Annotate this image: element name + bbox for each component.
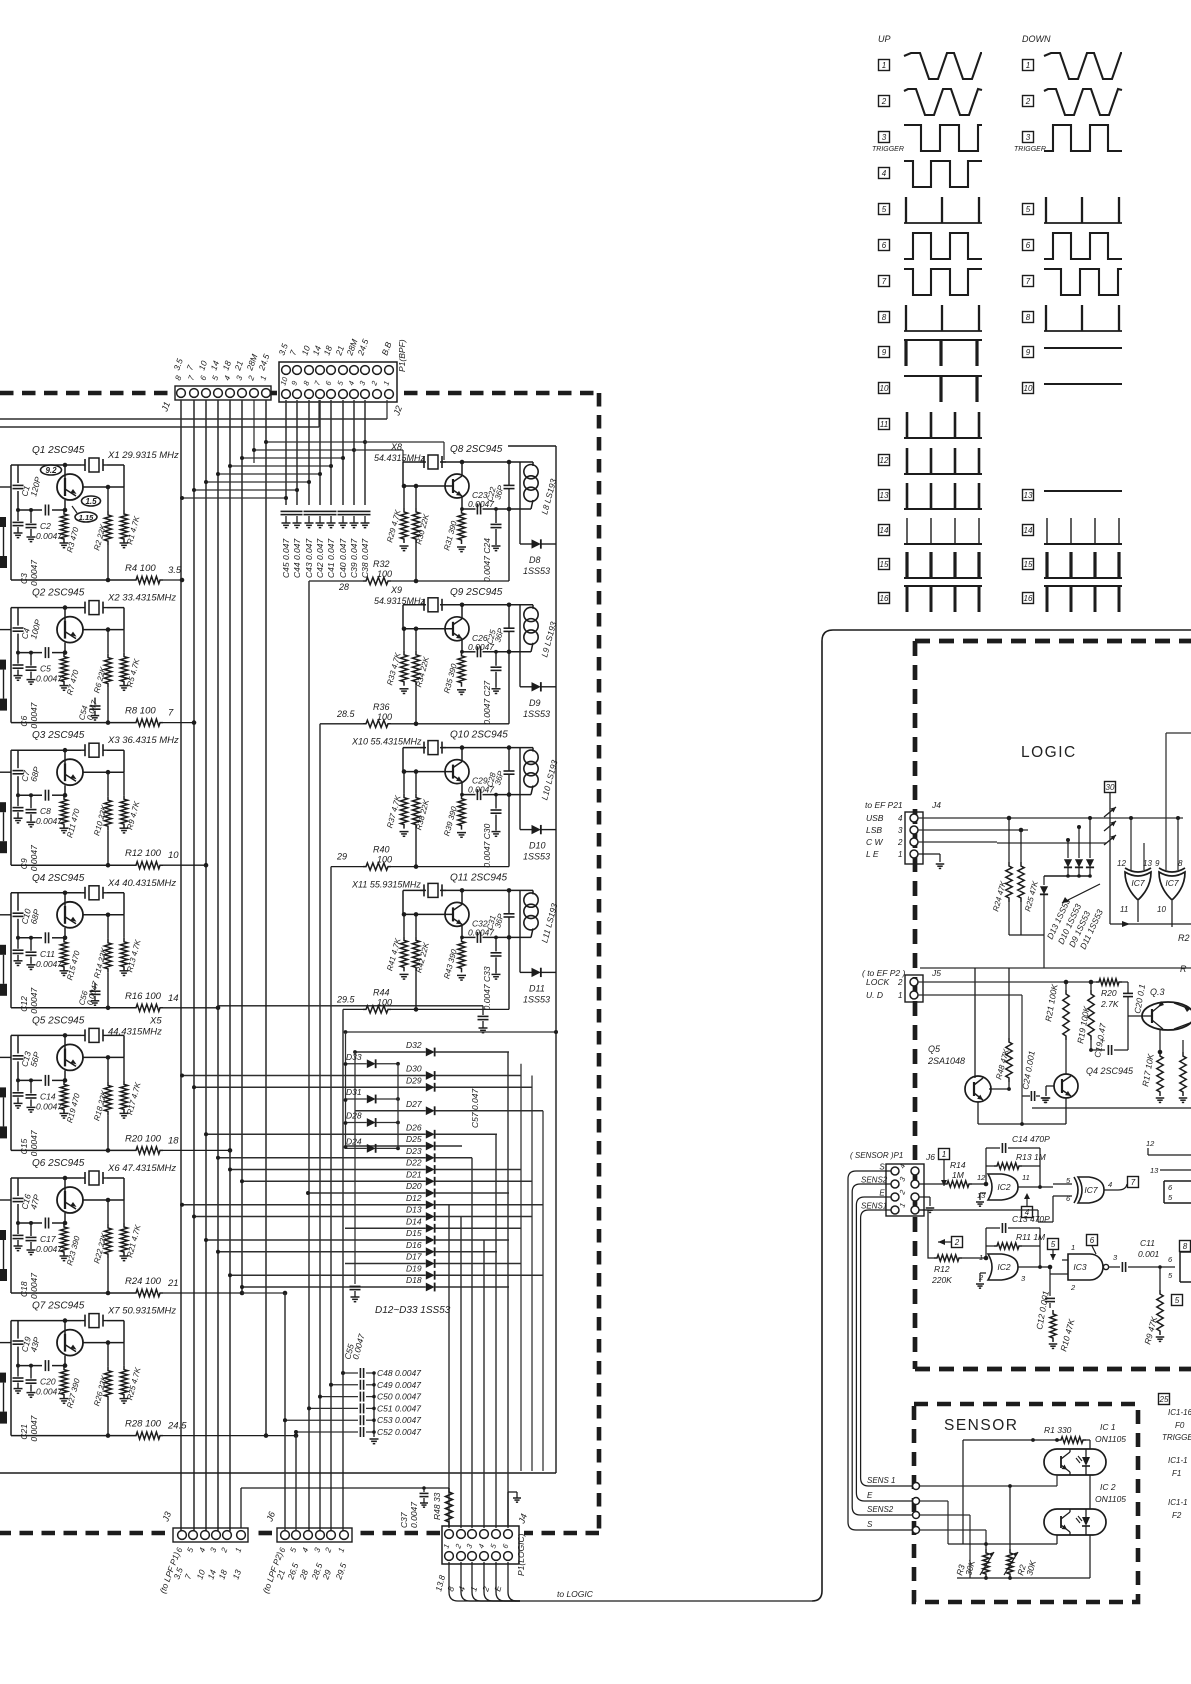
resistor R11 1M [986,1245,994,1247]
svg-text:J4: J4 [931,800,941,810]
waveform row 14 UP index box [879,525,890,536]
wire diode cathode [435,1086,532,1088]
svg-text:X3 36.4315 MHz: X3 36.4315 MHz [107,735,179,746]
svg-text:L E: L E [866,849,879,859]
crystal X (Q11) [428,883,438,897]
svg-text:5: 5 [1175,1296,1180,1305]
ground [27,1106,36,1108]
svg-text:X8: X8 [390,442,402,452]
diode D13 [426,1212,435,1221]
capacitor C3 0.0047 (left column lower) [17,510,19,521]
resistor R38 22K [415,772,417,794]
svg-text:0.0047: 0.0047 [29,845,39,871]
resistor R21 100K [1065,982,1067,990]
RF unit dashed enclosure bottom edge [524,1531,599,1536]
connector J2 / P1(BPF) outline [279,362,397,402]
svg-text:C15: C15 [19,1139,29,1155]
resistor R8 100 [133,719,163,726]
wire oscillator outer left rail [10,608,12,723]
resistor R42 22K [415,914,417,936]
connector J4 pin 2 circle (top row) [457,1530,466,1539]
wire oscillator bottom rail [11,722,133,724]
wire diode anode [355,1051,426,1053]
svg-text:25: 25 [1159,1395,1169,1404]
capacitor C31 36P [508,890,510,914]
svg-text:C48 0.0047: C48 0.0047 [377,1368,421,1378]
wire to diode [519,462,521,544]
resistor R10 47K [1050,1310,1056,1342]
svg-text:R1 330: R1 330 [1044,1425,1072,1435]
wire emitter down [461,782,463,795]
waveform row 16 UP trace [904,585,982,587]
svg-text:1: 1 [942,1150,946,1159]
svg-text:LOGIC: LOGIC [1021,744,1077,761]
connector J5 pin 1 circle [910,991,918,999]
connector J2 pin 5 circle (row P1) [339,366,348,375]
capacitor C48 [343,1372,358,1374]
svg-text:SENS2: SENS2 [861,1176,888,1185]
connector J1 pin 5 circle [214,389,223,398]
connector J6 pin 6 circle [281,1531,290,1540]
wire emitter out [65,1197,81,1200]
resistor R24 47K [1008,818,1010,862]
net number 30 [1105,782,1116,793]
svg-text:0.0047: 0.0047 [29,560,39,586]
wire oscillator top rail [403,747,426,749]
waveform row 2 DOWN index box [1023,96,1034,107]
gate IC3 (NAND) [1068,1254,1103,1280]
wire Q4 collector/emitter legs [1065,1098,1067,1124]
wire oscillator outer left rail [10,1321,12,1436]
wire diode anode [309,1192,426,1194]
wire bus 24.5 band [265,400,267,1436]
waveform row 7 DOWN index box [1023,276,1034,287]
wire diode cathode [376,1122,398,1124]
connector J3 pin 5 circle [189,1531,198,1540]
diode D17 [426,1259,435,1268]
wire oscillator outer left rail [10,1035,12,1150]
wire IC7b inputs [1165,733,1167,870]
svg-text:C14 470P: C14 470P [1012,1134,1050,1144]
crystal X (Q10) [428,741,438,755]
wire oscillator bottom rail [11,1007,133,1009]
svg-text:C11: C11 [1140,1238,1155,1248]
ground [60,827,69,829]
trimmer (cut at page edge) [0,1230,6,1240]
ground [27,964,36,966]
svg-text:DOWN: DOWN [1022,34,1051,44]
wire sensor top rail [962,1440,964,1544]
crossover arrow [1104,807,1116,817]
wire outer loop (to LOGIC feed) [812,630,1191,1601]
diode (cluster) 1SS53 [1089,855,1091,858]
connector J1 pin 8 circle [177,389,186,398]
wire LOCK line [918,981,1096,983]
capacitor C55 0.0047 [353,1050,357,1054]
wire IC7c inputs [1053,1186,1076,1188]
wire crossover matrix J1-J2 [266,441,365,443]
diode D9 1SS53 [520,686,532,688]
wire diode cluster bus [1044,875,1090,877]
gate IC7c (XOR) [1078,1177,1104,1203]
ground [120,1112,129,1114]
capacitor C5 (series base) [44,647,46,658]
connector J4 pin 5 circle (bottom row) [492,1552,501,1561]
capacitor C33 0.0047 (shunt) [495,937,497,951]
svg-text:C50 0.0047: C50 0.0047 [377,1392,421,1402]
diode D23 [426,1153,435,1162]
resistor R20 100 [133,1147,163,1154]
svg-text:10: 10 [1024,384,1033,393]
wire base lead [64,643,66,653]
svg-text:D8: D8 [529,555,541,565]
svg-text:21: 21 [167,1278,179,1289]
svg-text:IC3: IC3 [1073,1262,1087,1272]
svg-text:D24: D24 [346,1136,362,1146]
inductor L11 LS193 [532,890,534,894]
wire output line [462,936,476,938]
waveform row 5 UP index box [879,204,890,215]
wire output to bus [163,864,206,866]
svg-text:E: E [867,1491,873,1500]
wire IC7 pins right (cut gates) [1148,1154,1191,1156]
waveform row 11 UP index box [879,419,890,430]
capacitor C50 [320,1396,358,1398]
wire LE to ground [918,853,940,855]
callout arrow [72,506,77,513]
wire SENS1 harness [861,1210,912,1486]
resistor R37 4.7K [403,772,405,794]
svg-text:13: 13 [977,1191,986,1200]
wire left leg [402,890,404,914]
wire diode anode [345,1098,367,1100]
svg-text:0.0047 C30: 0.0047 C30 [482,823,492,867]
resistor R44 100 [363,1006,391,1013]
ground for C40 [339,522,348,524]
waveform row 15 UP index box [879,559,890,570]
svg-text:C37: C37 [399,1512,409,1528]
resistor R23 390 [60,1223,67,1256]
wire output to bus [163,1149,230,1151]
wire emitter down [461,496,463,509]
svg-text:13: 13 [880,491,889,500]
svg-text:Q6 2SC945: Q6 2SC945 [32,1158,85,1169]
wire left leg [402,605,404,629]
svg-text:D25: D25 [406,1134,422,1144]
wire base lead [64,1213,66,1223]
waveform row 14 DOWN index box [1023,525,1034,536]
wire output bus down [342,1009,344,1531]
crystal X5 [89,1028,99,1042]
capacitor C11 (series base) [44,932,46,943]
capacitor C17 (series base) [44,1218,46,1229]
wire emitter out [65,484,81,487]
svg-text:C8: C8 [40,806,51,816]
crystal X7 [89,1314,99,1328]
resistor R14 22K [107,915,109,939]
svg-text:3: 3 [882,133,887,142]
capacitor C53 [285,1419,358,1421]
capacitor C6 0.0047 (left column lower) [17,653,19,664]
waveform row 10 DOWN index box [1023,383,1034,394]
wire diode anode [345,1227,426,1229]
wire crystal drop to emitter node [123,1035,125,1057]
ground [14,960,23,962]
capacitor C14 (series base) [44,1075,46,1086]
resistor R35 390 (emitter) [458,652,465,687]
wire diode anode [345,1263,426,1265]
wire diode anode [183,1075,426,1077]
resistor R4 100 [133,576,163,583]
wire matrix right verticals [520,1064,522,1471]
svg-text:D27: D27 [406,1099,422,1109]
capacitor C43 [304,510,315,512]
connector J2 pin 5 circle (row J2) [339,390,348,399]
resistor R40 100 [363,863,391,870]
svg-text:3.5: 3.5 [168,565,182,576]
wire collector [461,890,463,904]
wire diode anode [195,1086,426,1088]
svg-text:16: 16 [1024,594,1033,603]
capacitor C24 0.001 [1008,1089,1010,1096]
capacitor C19 43P [13,1340,24,1342]
waveform row 8 DOWN index box [1023,312,1034,323]
ground for C43 [305,522,314,524]
ground for C42 [316,522,325,524]
connector J6 pin 5 circle [292,1531,301,1540]
connector J4(logic) pin 1 circle [910,850,918,858]
svg-text:1SS53: 1SS53 [523,709,550,719]
wire oscillator outer left rail [10,750,12,865]
transistor Q6 [57,1187,83,1213]
wire oscillator outer left rail [10,893,12,1008]
svg-text:0.0047 C27: 0.0047 C27 [482,681,492,725]
connector J2 pin 2 circle (row P1) [373,366,382,375]
wire stub to page edge [0,1199,11,1201]
connector J2 pin 3 circle (row P1) [361,366,370,375]
gate IC7a (XOR) [1125,872,1151,900]
connector J5 pin 2 circle [910,978,918,986]
resistor R2 30K (variable) [1009,1486,1011,1549]
connector J6(logic) pin 4 circles [891,1167,899,1175]
connector J3 pin 1 circle [237,1531,246,1540]
svg-text:0.0047 C33: 0.0047 C33 [482,966,492,1010]
connector J1 outline [175,386,271,400]
svg-text:11: 11 [1120,905,1128,914]
connector J6 pin 3 circle [316,1531,325,1540]
resistor R20 2.7K [1096,979,1122,985]
ground [60,685,69,687]
svg-text:4: 4 [882,169,887,178]
ground [14,1388,23,1390]
wire stub to page edge [0,1056,11,1058]
svg-text:9: 9 [1155,859,1160,868]
svg-text:F1: F1 [1172,1469,1181,1478]
waveform row 8 UP index box [879,312,890,323]
wire diode anode [346,1145,426,1147]
diode D13 (down leg) [1043,876,1045,885]
capacitor C21 0.0047 (left column lower) [17,1366,19,1377]
wire cell right leg [508,509,510,581]
crossover arrow [1104,821,1116,831]
svg-text:R12 100: R12 100 [125,848,162,859]
svg-text:C21: C21 [19,1424,29,1440]
svg-text:IC1-1: IC1-1 [1168,1498,1188,1507]
wire base rail [403,913,452,915]
connector J4 pin 3 circle (bottom row) [468,1552,477,1561]
wire LED column [1089,1440,1091,1449]
wire diode anode [183,1204,426,1206]
resistor R30 22K [415,486,417,508]
diode D10 1SS53 [520,829,532,831]
wire SENS2 harness [852,1184,912,1515]
svg-text:2SA1048: 2SA1048 [927,1056,965,1066]
resistor R13 4.7K [123,915,125,938]
wire CW second segment [997,842,1106,844]
resistor R19 100K [1090,982,1092,990]
transistor Q7 [57,1330,83,1356]
waveform row 8 DOWN trace [1044,330,1122,332]
svg-text:D23: D23 [406,1146,422,1156]
wire collector [461,462,463,476]
capacitor C54 [94,698,96,705]
svg-text:D32: D32 [406,1040,422,1050]
ground [351,1296,360,1298]
inductor L8 LS193 [532,462,534,466]
ground [1156,1336,1165,1338]
resistor R24 100 [133,1289,163,1296]
svg-text:C17: C17 [40,1234,56,1244]
wire S into box [920,1529,986,1531]
waveform row 3 UP index box [879,132,890,143]
wire IC3 input 1 [1062,1259,1068,1261]
svg-text:C12: C12 [19,996,29,1012]
waveform row 7 DOWN trace [1044,269,1122,295]
svg-text:C51 0.0047: C51 0.0047 [377,1403,421,1413]
wire SENS1 into box [920,1485,1010,1487]
svg-text:C5: C5 [40,664,51,674]
svg-text:R8 100: R8 100 [125,706,156,717]
svg-text:14: 14 [880,526,889,535]
connector J2 pin 8 circle (row J2) [305,390,314,399]
resistor R7 470 [60,653,67,686]
svg-text:D19: D19 [406,1263,422,1273]
svg-text:X7 50.9315MHz: X7 50.9315MHz [107,1306,176,1317]
gate IC2b (OR) [988,1254,1018,1280]
wire oscillator top rail [403,461,426,463]
diode D27 [426,1106,435,1115]
ground [120,827,129,829]
wire collector from top rail [64,893,66,906]
SENSOR dashed enclosure [914,1404,1138,1602]
wire LOGIC inner rail [920,967,1044,969]
ground [936,863,945,865]
svg-text:15: 15 [1024,560,1033,569]
waveform row 3 DOWN index box [1023,132,1034,143]
wire diode cathode [435,1251,497,1253]
net number 6 (boxed) [1087,1235,1098,1246]
connector J2 pin 4 circle (row J2) [350,390,359,399]
svg-text:2: 2 [1070,1283,1076,1292]
capacitor C40 [338,510,349,512]
resistor R18 22K [107,1057,109,1081]
connector J2 pin 1 circle (row P1) [385,366,394,375]
svg-text:0.0047: 0.0047 [36,816,62,826]
svg-text:R36: R36 [373,702,390,712]
ground for C39 [350,522,359,524]
resistor R25 4.7K [123,1343,125,1366]
transistor Q10 [445,760,469,784]
wire oscillator bottom rail [11,1292,133,1294]
wire oscillator top rail [11,607,81,609]
wire IC2a input2 [980,1192,986,1194]
svg-text:SENS 1: SENS 1 [867,1476,895,1485]
waveform row 4 UP trace [904,161,982,187]
capacitor C20 shunt [30,1366,32,1379]
svg-text:28: 28 [338,582,349,592]
svg-text:0.0047: 0.0047 [29,988,39,1014]
svg-text:14: 14 [1024,526,1033,535]
wire inner left column [17,1178,19,1196]
svg-text:P1(BPF): P1(BPF) [397,339,407,372]
svg-text:P1(LOGIC): P1(LOGIC) [516,1533,526,1576]
wire base rail [18,1222,42,1224]
capacitor C26 0.0047 (series out) [476,646,478,657]
adjustment callout 1.15 (Q1) [75,512,97,522]
diode D25 [426,1142,435,1151]
ground [27,1249,36,1251]
wire CW line [918,841,997,843]
svg-text:Q9 2SC945: Q9 2SC945 [450,587,503,598]
transistor Q1 [57,474,83,500]
svg-text:3: 3 [898,826,903,835]
ground [492,545,501,547]
svg-text:E: E [879,1189,885,1198]
wire diode cathode [435,1051,509,1053]
svg-text:IC7: IC7 [1131,878,1145,888]
resistor R3 30K (variable) [985,1544,987,1549]
trimmer (cut at page edge) [0,945,6,955]
svg-text:7: 7 [1026,277,1031,286]
connector J2 pin 2 circle (row J2) [373,390,382,399]
svg-text:D31: D31 [346,1087,362,1097]
svg-text:2: 2 [897,838,903,847]
wire diode anode [207,1133,426,1135]
gate (cut) right edge [1180,1252,1191,1282]
wire base rail [403,485,452,487]
svg-text:R44: R44 [373,987,390,997]
capacitor C1 120P [13,484,24,486]
svg-text:IC1-1: IC1-1 [1168,1456,1188,1465]
wire to LOGIC rail [520,1600,812,1602]
waveform row 15 DOWN trace [1044,577,1122,579]
net number 5 (boxed right) [1172,1295,1183,1306]
capacitor C30 0.0047 (shunt) [495,795,497,809]
wire Q5 collector up [974,968,976,1078]
waveform row 2 DOWN trace [1044,89,1122,115]
svg-text:D9: D9 [529,698,541,708]
diode D29 [426,1083,435,1092]
svg-text:2: 2 [897,978,903,987]
crystal X4 [89,886,99,900]
wire IC7a output [1137,901,1139,922]
svg-text:1: 1 [1071,1243,1075,1252]
transistor Q4 [57,902,83,928]
svg-text:4: 4 [1108,1180,1112,1189]
wire IC2 emitter rail [948,1543,1057,1545]
wire inner left column [17,893,19,911]
capacitor C13 470P [985,1228,987,1258]
